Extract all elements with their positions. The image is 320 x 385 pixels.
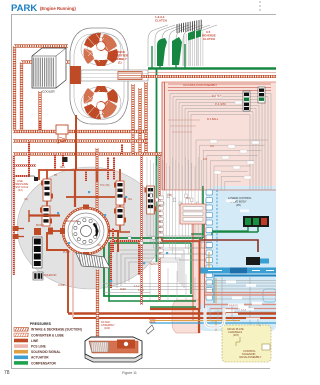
line pressure trunk bbox=[39, 115, 120, 210]
svg-text:4-5-6: 4-5-6 bbox=[241, 309, 247, 311]
boost valve bbox=[40, 206, 52, 226]
svg-text:DECREASE: DECREASE bbox=[66, 220, 79, 223]
svg-text:TCC (36): TCC (36) bbox=[100, 185, 110, 187]
signal wires bbox=[147, 157, 212, 300]
park pawl note bbox=[146, 317, 157, 334]
cooler bbox=[32, 48, 66, 94]
channel tubes bbox=[205, 308, 224, 327]
pressure regulator valve bbox=[41, 179, 53, 201]
tcc regulator valve bbox=[114, 181, 126, 205]
branch drops bbox=[13, 120, 122, 181]
fold mark bbox=[259, 1, 261, 13]
loop connectors bbox=[128, 237, 155, 245]
bundle labels bbox=[226, 304, 260, 320]
svg-text:(32): (32) bbox=[97, 245, 101, 247]
pcs mid block bbox=[172, 204, 206, 333]
feed dashes bbox=[217, 190, 250, 325]
rotor feed bbox=[29, 170, 118, 252]
pump case bbox=[17, 167, 163, 289]
svg-text:PRESSURES: PRESSURES bbox=[30, 322, 52, 326]
suction mains bbox=[13, 132, 162, 155]
svg-text:PARK: PARK bbox=[11, 3, 37, 14]
filter label bbox=[101, 320, 115, 330]
svg-text:COMP: COMP bbox=[58, 285, 65, 287]
svg-text:4-3-2: 4-3-2 bbox=[134, 286, 140, 288]
legend bbox=[14, 322, 82, 365]
svg-text:78: 78 bbox=[4, 370, 10, 376]
tcc apply valve bbox=[114, 207, 126, 225]
svg-text:Figure 11: Figure 11 bbox=[122, 371, 137, 375]
valve body region bbox=[162, 82, 276, 190]
channel drops bbox=[232, 306, 261, 326]
note box bbox=[222, 325, 271, 362]
title bbox=[11, 3, 76, 14]
suction loop (thin) bbox=[111, 240, 139, 288]
svg-text:SOLENOID SIGNAL: SOLENOID SIGNAL bbox=[31, 350, 61, 354]
lower control valve body region bbox=[205, 186, 276, 326]
line pressure test hole label bbox=[14, 176, 38, 192]
right wire bundle bbox=[205, 200, 276, 313]
figure caption bbox=[122, 371, 137, 375]
left frame pipe bbox=[13, 155, 15, 275]
svg-text:PR: PR bbox=[54, 175, 58, 177]
suction screen bbox=[63, 251, 110, 268]
manual valve bbox=[145, 186, 157, 214]
pcs band bbox=[193, 224, 205, 320]
svg-text:LINE: LINE bbox=[31, 339, 38, 343]
border frame bbox=[12, 15, 277, 369]
svg-text:SOLENOID: SOLENOID bbox=[44, 274, 57, 277]
check ball column bbox=[206, 190, 213, 300]
pressure relief valve bbox=[56, 125, 68, 143]
accumulator valve B bbox=[258, 87, 265, 103]
svg-text:(25): (25) bbox=[168, 195, 172, 197]
solenoid signal lines bbox=[150, 252, 240, 331]
svg-text:REG: REG bbox=[60, 167, 65, 169]
pc solenoid bbox=[246, 257, 269, 265]
torque converter assembly bbox=[70, 28, 148, 124]
svg-text:SERVO: SERVO bbox=[150, 264, 158, 266]
clutch labels bbox=[155, 15, 216, 41]
compensator channels (gray) bbox=[117, 250, 184, 288]
svg-text:PUMP: PUMP bbox=[63, 251, 71, 254]
page number bbox=[4, 370, 10, 376]
suction drop bbox=[98, 262, 160, 341]
line bottom runs bbox=[68, 238, 276, 333]
svg-text:INTAKE & DECREASE (SUCTION): INTAKE & DECREASE (SUCTION) bbox=[31, 328, 82, 332]
svg-text:3-5-R (?): 3-5-R (?) bbox=[229, 305, 238, 307]
svg-text:PCS LINE: PCS LINE bbox=[31, 345, 46, 349]
vb labels bbox=[183, 83, 226, 161]
lower blue block bbox=[199, 303, 276, 331]
converter drain lines bbox=[133, 82, 146, 154]
actuator lines bbox=[150, 274, 276, 323]
lcvb label bbox=[228, 196, 252, 207]
compensator trunk bbox=[148, 40, 276, 262]
cooler pipes bbox=[14, 46, 72, 131]
pcs block detail bbox=[180, 204, 206, 224]
solenoid wiring bbox=[199, 227, 258, 252]
iso valve bbox=[33, 228, 43, 268]
lube main bbox=[140, 73, 276, 77]
svg-text:ACT: ACT bbox=[108, 256, 113, 259]
svg-text:BOOST: BOOST bbox=[36, 225, 45, 227]
torque converter label bbox=[110, 50, 129, 65]
valve body channels bbox=[162, 82, 276, 190]
accumulator valve A bbox=[243, 91, 250, 111]
shift solenoid bbox=[243, 216, 269, 227]
svg-text:COMPENSATOR: COMPENSATOR bbox=[31, 361, 57, 365]
svg-text:FEED: FEED bbox=[120, 289, 126, 291]
svg-text:(44): (44) bbox=[24, 199, 28, 201]
svg-text:SIG: SIG bbox=[128, 199, 132, 201]
actuator feed bar bbox=[200, 268, 276, 277]
regulator piping bbox=[47, 201, 130, 313]
tiny labels bbox=[24, 167, 191, 292]
svg-text:CONVERTER & LUBE: CONVERTER & LUBE bbox=[31, 333, 64, 337]
bottom gray bundle bbox=[103, 284, 214, 293]
afl valve (small) bbox=[33, 272, 57, 280]
pcs line drop bbox=[72, 252, 74, 318]
compensator loop bbox=[104, 186, 258, 307]
1-2-3-4 clutch and 3-5 reverse clutch bbox=[148, 16, 217, 66]
pump rotor bbox=[60, 205, 109, 258]
svg-text:COOLER: COOLER bbox=[42, 90, 56, 94]
drain bundle bbox=[108, 131, 160, 305]
bleed dots bbox=[57, 191, 168, 282]
oil pan bbox=[85, 337, 142, 362]
frame test ports bbox=[13, 226, 25, 239]
svg-text:(Engine Running): (Engine Running) bbox=[40, 6, 76, 11]
svg-text:PARKPAWL: PARKPAWL bbox=[149, 317, 157, 324]
svg-text:3-5-R: 3-5-R bbox=[138, 290, 144, 292]
svg-text:AFL: AFL bbox=[186, 197, 191, 200]
svg-text:ACTUATOR: ACTUATOR bbox=[31, 356, 49, 360]
